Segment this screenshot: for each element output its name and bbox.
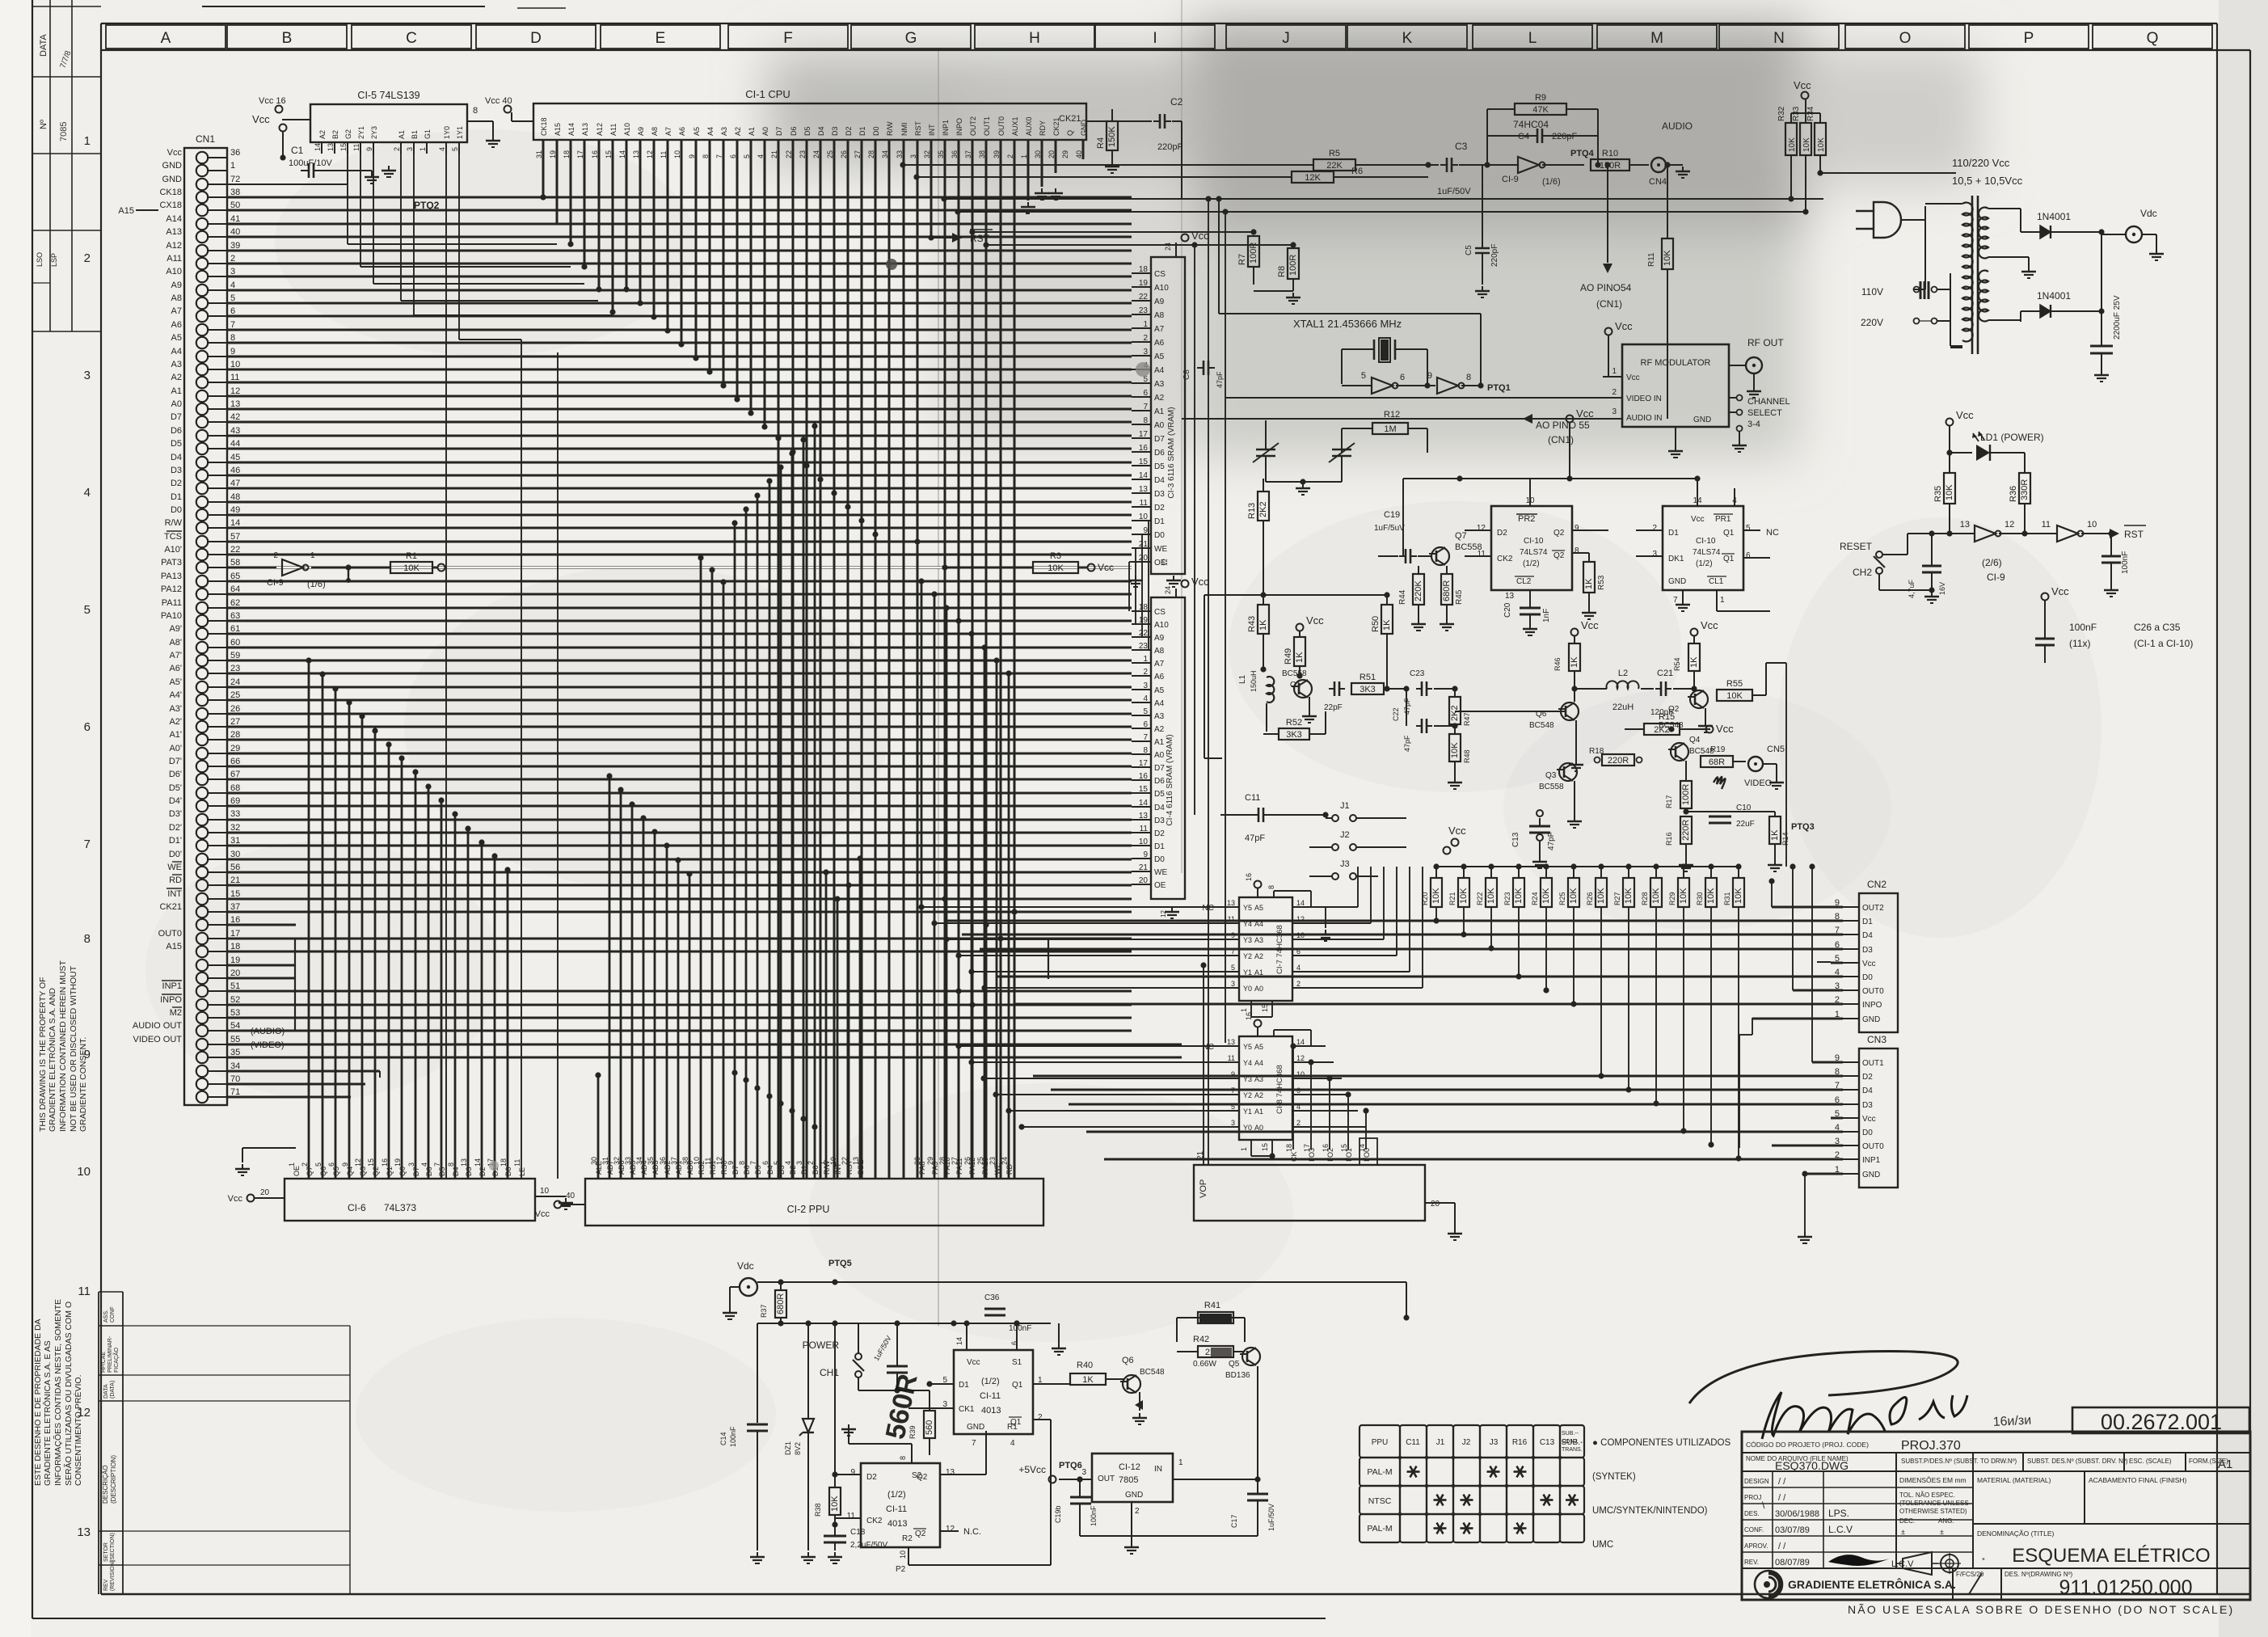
svg-text:38: 38 [230,188,240,197]
svg-text:1: 1 [1240,1008,1248,1012]
svg-text:REV.: REV. [1744,1559,1759,1566]
svg-text:Q1: Q1 [1012,1381,1023,1390]
svg-text:18: 18 [1139,265,1149,274]
svg-text:Q3: Q3 [1545,771,1557,780]
svg-text:7: 7 [1143,733,1148,742]
svg-text:49: 49 [230,505,240,515]
svg-text:CN3: CN3 [1867,1034,1886,1045]
svg-text:CI-3 6116 SRAM (VRAM): CI-3 6116 SRAM (VRAM) [1167,407,1176,498]
svg-text:19: 19 [394,1158,402,1167]
svg-text:22pF: 22pF [1324,703,1343,712]
ground RF modulator [1675,427,1676,446]
svg-text:D7: D7 [775,126,783,136]
resistor R55 10K [1717,690,1752,701]
svg-text:PROJ.370: PROJ.370 [1901,1439,1961,1453]
svg-text:2: 2 [1652,524,1657,533]
svg-text:D0: D0 [171,505,182,515]
resistor R25 10K [1570,863,1576,869]
svg-text:12: 12 [2005,520,2014,529]
svg-text:R35: R35 [1933,486,1943,502]
svg-text:4013: 4013 [981,1406,1001,1415]
svg-text:D5': D5' [169,783,182,793]
svg-text:Y2: Y2 [1243,1091,1252,1099]
svg-text:D1: D1 [959,1381,969,1390]
svg-text:12: 12 [230,386,240,396]
svg-text:8: 8 [1466,373,1471,382]
svg-text:10K: 10K [1788,137,1797,152]
svg-text:D2: D2 [1154,829,1165,838]
svg-text:Vcc: Vcc [967,1358,980,1367]
svg-text:CK18: CK18 [159,188,182,197]
svg-text:AUDIO: AUDIO [1662,120,1693,132]
svg-text:OUT1: OUT1 [1862,1059,1884,1068]
svg-text:GRADIENTE CONSENT.: GRADIENTE CONSENT. [78,1037,88,1132]
svg-text:24: 24 [1164,243,1172,251]
svg-text:68: 68 [230,783,240,793]
svg-text:(1/6): (1/6) [307,580,326,589]
svg-text:22: 22 [1139,629,1149,638]
svg-text:150K: 150K [1107,126,1117,147]
svg-text:R33: R33 [1792,106,1801,121]
wire A15-CX18 tie [136,209,158,211]
resistor R6 12K [1292,171,1334,183]
svg-text:C14: C14 [719,1432,727,1445]
svg-text:A4: A4 [171,347,182,357]
svg-text:68R: 68R [1709,757,1725,767]
svg-text:● COMPONENTES UTILIZADOS: ● COMPONENTES UTILIZADOS [1592,1438,1731,1448]
svg-text:A2: A2 [318,130,327,139]
svg-text:10K: 10K [1596,888,1606,904]
svg-text:11: 11 [847,1512,856,1521]
svg-text:3: 3 [795,1161,803,1165]
svg-text:100nF: 100nF [2121,551,2130,574]
svg-text:A11: A11 [167,254,182,264]
svg-text:32: 32 [230,823,240,833]
svg-text:INFORMAÇÕES CONTIDAS NESTE, SO: INFORMAÇÕES CONTIDAS NESTE, SOMENTE [53,1299,63,1486]
svg-text:16: 16 [1245,1012,1253,1020]
svg-text:A4: A4 [1154,366,1165,375]
svg-text:19: 19 [1139,279,1149,288]
svg-text:L.C.V: L.C.V [1828,1524,1853,1535]
svg-text:C19b: C19b [1054,1505,1062,1523]
svg-text:Vcc: Vcc [1098,562,1114,573]
svg-text:M2: M2 [170,1008,182,1018]
svg-text:RF MODULATOR: RF MODULATOR [1641,358,1711,368]
svg-text:10: 10 [540,1187,550,1196]
svg-text:WE: WE [1154,868,1167,877]
resistor R22 10K [1488,863,1494,869]
op IC CI-3 6116 SRAM [1151,257,1185,574]
resistor R13 2K2 [1263,479,1264,492]
svg-text:10K: 10K [1624,888,1634,904]
svg-text:CI-10: CI-10 [1696,537,1716,546]
svg-text:6: 6 [761,1161,769,1165]
svg-text:CK1: CK1 [959,1405,975,1414]
svg-text:CN5: CN5 [1767,745,1785,754]
svg-text:A1: A1 [2218,1458,2232,1471]
svg-text:PTQ4: PTQ4 [1570,149,1595,158]
svg-text:R27: R27 [1613,892,1621,905]
svg-text:PRELIMINAR-: PRELIMINAR- [107,1335,113,1373]
svg-text:D7: D7 [171,412,182,422]
svg-text:28: 28 [230,730,240,740]
svg-text:OUT0: OUT0 [997,116,1005,136]
wires CI-8 right feeds [1311,1045,1326,1047]
resistor R14 1K [1774,812,1776,816]
svg-text:A1: A1 [398,130,406,139]
wires CI-7 right feeds [1311,906,1358,908]
svg-text:4: 4 [420,1162,428,1167]
svg-text:21: 21 [1139,540,1149,549]
svg-text:R4: R4 [1096,137,1106,149]
svg-text:CI-12: CI-12 [1119,1462,1140,1472]
svg-text:A2: A2 [1154,394,1165,403]
svg-text:38: 38 [681,1157,689,1165]
svg-text:10K: 10K [1726,691,1743,701]
svg-text:A5: A5 [1254,1043,1263,1051]
svg-text:CI-2 PPU: CI-2 PPU [787,1204,830,1215]
ground C1 [371,172,373,177]
svg-text:A10: A10 [1154,284,1169,293]
svg-text:I: I [1153,30,1157,47]
svg-text:20: 20 [230,968,240,978]
svg-text:R24: R24 [1531,892,1539,905]
svg-text:D5: D5 [1154,790,1165,799]
svg-text:A7: A7 [664,127,672,136]
svg-text:10: 10 [693,1157,701,1165]
svg-text:SETOR: SETOR [103,1542,109,1562]
svg-text:7: 7 [1673,596,1678,605]
svg-text:7805: 7805 [1119,1475,1138,1485]
svg-text:13: 13 [1227,899,1235,907]
svg-text:220pF: 220pF [1490,244,1499,267]
svg-text:22uF: 22uF [1736,820,1755,829]
svg-text:2: 2 [84,251,91,265]
capacitor C2 220pF [1086,120,1152,122]
svg-text:A0: A0 [171,399,182,409]
svg-text:8V2: 8V2 [794,1442,802,1455]
svg-text:INPO: INPO [955,118,963,136]
svg-text:220V: 220V [1861,317,1883,328]
svg-text:•: • [1982,1555,1985,1564]
svg-text:GRADIENTE ELETRÔNICA S.A. E AS: GRADIENTE ELETRÔNICA S.A. E AS [42,1340,53,1486]
svg-text:12K: 12K [1305,173,1321,183]
svg-text:26: 26 [230,704,240,714]
svg-text:C8: C8 [1182,369,1191,380]
svg-text:A15: A15 [118,206,134,216]
svg-text:VOP: VOP [1199,1179,1208,1198]
svg-text:Vcc: Vcc [1862,960,1876,968]
svg-text:R46: R46 [1553,657,1562,671]
svg-text:11: 11 [1140,499,1149,508]
svg-text:Vcc: Vcc [2051,585,2069,597]
svg-text:3: 3 [1143,348,1148,357]
second rail [757,1323,1051,1324]
resistor R4 [1107,121,1118,150]
ground CI-3 [1135,576,1136,580]
wire right half verticals [1208,199,1209,1165]
S2 ground [911,1444,913,1463]
svg-text:18: 18 [230,942,240,951]
secondary center tap ground [1988,256,2029,258]
svg-text:A3: A3 [171,360,182,369]
svg-text:37: 37 [230,902,240,912]
svg-text:6: 6 [1143,389,1148,398]
svg-text:LSP: LSP [50,253,58,267]
ground R7 R8 [1254,290,1293,292]
svg-text:A5: A5 [1154,686,1165,695]
svg-text:13: 13 [946,1468,955,1477]
svg-text:67: 67 [230,770,240,779]
svg-text:R36: R36 [2009,486,2018,502]
svg-text:15: 15 [1261,1143,1269,1151]
resistor R26 10K [1598,863,1604,869]
svg-text:1uF/50V: 1uF/50V [1437,187,1471,196]
svg-text:47pF: 47pF [1216,371,1224,388]
svg-text:3: 3 [84,369,91,382]
svg-text:D6: D6 [171,426,182,436]
svg-text:OUT2: OUT2 [1862,904,1884,913]
svg-text:A3: A3 [1254,936,1263,944]
svg-text:3: 3 [1612,407,1617,416]
svg-text:OE: OE [1154,881,1166,890]
svg-text:A5: A5 [1254,904,1263,912]
svg-text:A5: A5 [693,127,701,136]
svg-text:CN1: CN1 [196,133,215,145]
resistor R46 1K [1571,629,1579,636]
capacitor C3 1uF/50V [1440,164,1447,166]
svg-text:A13: A13 [166,227,182,237]
pin10 CI-6 ground [535,1196,566,1197]
svg-text:51: 51 [230,981,240,991]
channel select switch [1737,395,1743,401]
svg-text:C11: C11 [1406,1438,1420,1447]
svg-text:16: 16 [1139,444,1149,453]
svg-text:1Y0: 1Y0 [443,126,451,139]
svg-text:70: 70 [230,1074,240,1084]
svg-text:2K2: 2K2 [1450,705,1460,721]
svg-text:64: 64 [230,584,240,594]
svg-text:E: E [656,30,666,47]
svg-text:K: K [1402,30,1413,47]
svg-text:A7: A7 [1154,325,1165,334]
svg-text:13: 13 [1139,812,1149,821]
svg-text:911.01250.000: 911.01250.000 [2059,1576,2193,1599]
svg-text:PA12: PA12 [161,584,182,594]
svg-text:A8: A8 [1154,311,1165,320]
resistor R39 handwritten 560R [929,1390,930,1411]
svg-text:INP1: INP1 [1862,1156,1881,1165]
svg-text:3: 3 [406,147,414,151]
svg-text:GND: GND [1668,577,1686,586]
svg-text:CI-11: CI-11 [980,1391,1001,1401]
resistor R23 10K [1516,863,1521,869]
svg-text:R19: R19 [1710,745,1726,754]
svg-text:P2: P2 [896,1565,906,1574]
svg-text:30/06/1988: 30/06/1988 [1775,1509,1819,1519]
resistor R35 10K [1944,473,1955,504]
svg-text:D0: D0 [1862,1129,1873,1137]
svg-text:B: B [282,30,293,47]
svg-text:A1: A1 [171,386,182,396]
svg-text:6: 6 [84,720,91,734]
svg-text:D4: D4 [1862,931,1873,940]
svg-text:WE: WE [1154,545,1167,554]
svg-text:LPS.: LPS. [1828,1508,1849,1519]
svg-text:56: 56 [230,863,240,872]
column header strip [106,25,226,49]
svg-text:2200uF 25V: 2200uF 25V [2113,295,2122,340]
svg-text:D3: D3 [831,126,839,136]
svg-text:L1: L1 [1238,674,1247,684]
note 100nF C26-C35 [2042,593,2049,601]
svg-text:1K: 1K [1689,656,1699,668]
svg-text:1: 1 [419,147,427,151]
svg-text:25: 25 [230,690,240,700]
wire CI-5 output jogs [347,154,348,244]
svg-text:Y5: Y5 [1243,904,1252,912]
svg-text:D1: D1 [858,126,866,136]
svg-text:VIDEO: VIDEO [1744,778,1773,788]
svg-text:CI-10: CI-10 [1524,537,1544,546]
svg-text:1nF: 1nF [1542,609,1551,622]
svg-text:Y3: Y3 [1243,936,1252,944]
svg-text:23: 23 [1139,306,1149,315]
svg-text:SELECT: SELECT [1747,408,1782,418]
svg-text:ESTE DESENHO E DE PROPRIEDADE: ESTE DESENHO E DE PROPRIEDADE DA [33,1318,43,1486]
resistor array R20-R31 rail [1444,847,1451,854]
svg-text:A5': A5' [169,677,182,687]
svg-text:A15: A15 [166,942,182,951]
svg-text:1: 1 [1240,1147,1248,1151]
svg-text:R38: R38 [814,1503,822,1517]
capacitor C5 220pF [1482,165,1483,243]
resistor R10 150R [1591,159,1629,171]
svg-text:72: 72 [230,175,240,184]
resistor R48 10K [1454,726,1456,734]
svg-text:J3: J3 [1490,1438,1499,1447]
svg-text:10: 10 [230,360,240,369]
svg-text:D1: D1 [1862,918,1873,926]
svg-text:1K: 1K [1584,578,1594,589]
svg-text:R3: R3 [1050,551,1061,561]
svg-text:5: 5 [1746,524,1751,533]
resistor R31 10K [1735,863,1741,869]
svg-text:J2: J2 [1340,830,1350,840]
svg-text:C19: C19 [1384,510,1400,520]
svg-text:R30: R30 [1696,892,1704,905]
resistor R38 10K [834,1323,836,1487]
svg-text:AO PINO54: AO PINO54 [1580,282,1632,293]
resistor R21 10K [1461,863,1466,869]
svg-text:A10: A10 [166,267,182,276]
svg-text:C: C [406,30,417,47]
svg-text:55: 55 [230,1035,240,1044]
svg-text:LE: LE [518,1167,526,1176]
svg-text:3: 3 [1231,980,1235,988]
connector CN1 [184,148,227,1105]
svg-text:R40: R40 [1077,1361,1093,1370]
svg-text:D4: D4 [1154,804,1165,812]
svg-text:2: 2 [1612,388,1617,397]
svg-text:11: 11 [78,1285,91,1298]
capacitor C15 1uF/50V [896,1358,898,1390]
svg-text:10: 10 [899,1551,907,1559]
svg-text:8: 8 [1143,746,1148,755]
svg-text:18: 18 [1285,1144,1293,1152]
svg-text:12: 12 [1296,1054,1305,1062]
svg-text:R43: R43 [1247,616,1257,632]
svg-text:5: 5 [314,1162,322,1167]
svg-text:14: 14 [1139,471,1149,480]
svg-text:25: 25 [976,1157,984,1165]
svg-text:CX18: CX18 [159,200,182,210]
svg-text:19: 19 [230,956,240,965]
svg-text:DESCRIÇÃO: DESCRIÇÃO [102,1465,109,1504]
svg-text:12: 12 [1477,524,1486,533]
svg-text:100nF: 100nF [1090,1505,1098,1526]
svg-text:34: 34 [635,1157,643,1165]
svg-text:Vcc: Vcc [228,1194,243,1204]
Vcc CI-3 [1182,234,1189,242]
svg-text:15: 15 [1340,1144,1348,1152]
svg-text:INP1: INP1 [162,981,182,991]
svg-text:D0: D0 [1154,855,1165,864]
svg-text:31: 31 [230,836,240,846]
svg-text:Vdc: Vdc [2140,208,2157,219]
svg-text:SUBST.P/DES.Nº (SUBST. TO DRW.: SUBST.P/DES.Nº (SUBST. TO DRW.Nº) [1901,1458,2017,1465]
svg-text:NMI: NMI [900,123,908,137]
svg-text:CHANNEL: CHANNEL [1747,397,1790,407]
svg-text:BC548: BC548 [1529,721,1554,730]
svg-text:42: 42 [230,412,240,422]
svg-text:R9: R9 [1535,93,1546,103]
svg-text:C2: C2 [1170,96,1183,108]
svg-text:PPU: PPU [1372,1438,1389,1447]
svg-text:11: 11 [1228,1054,1235,1062]
svg-text:GND: GND [1693,416,1711,424]
svg-text:ESQ370.DWG: ESQ370.DWG [1775,1459,1849,1472]
svg-text:D2': D2' [169,823,182,833]
svg-text:A14: A14 [166,214,182,224]
svg-text:10K: 10K [1734,888,1743,904]
svg-text:R42: R42 [1193,1335,1209,1344]
resistor R9 47K [1515,103,1566,115]
svg-text:UMC/SYNTEK/NINTENDO): UMC/SYNTEK/NINTENDO) [1592,1506,1708,1516]
svg-text:13: 13 [230,399,240,409]
svg-text:PR2: PR2 [1518,514,1535,524]
svg-text:13: 13 [852,1157,860,1165]
svg-text:NÃO USE ESCALA SOBRE O DESENHO: NÃO USE ESCALA SOBRE O DESENHO (DO NOT S… [1848,1603,2234,1616]
svg-text:9: 9 [1427,371,1432,381]
svg-text:NOT BE USED OR DISCLOSED WITHO: NOT BE USED OR DISCLOSED WITHOUT [69,965,78,1132]
svg-text:41: 41 [230,214,240,224]
svg-text:A10: A10 [623,123,631,136]
svg-text:L2: L2 [1618,669,1628,678]
LED LD1 POWER circuit [1946,419,1954,426]
svg-text:C26 a C35: C26 a C35 [2134,622,2181,633]
svg-text:Vcc: Vcc [1716,723,1734,735]
svg-text:8: 8 [738,1161,746,1165]
transistor Q5 BD136 [1242,1348,1260,1365]
svg-text:31: 31 [601,1157,609,1165]
svg-text:1: 1 [310,551,315,560]
svg-text:Vcc: Vcc [1306,614,1324,627]
svg-text:47pF: 47pF [1403,735,1411,752]
wire PPU PA verticals [921,581,923,1179]
svg-text:7: 7 [84,837,91,851]
svg-text:OUT0: OUT0 [1862,987,1884,996]
